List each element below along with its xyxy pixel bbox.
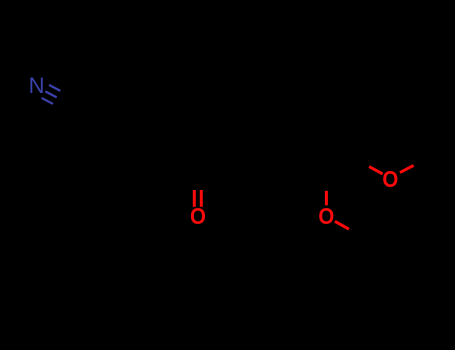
svg-text:O: O — [318, 202, 334, 229]
lower methoxy: ring-side half bond (vertical) — [325, 191, 328, 206]
svg-text:O: O — [190, 203, 206, 230]
upper methoxy: ring-side half bond — [369, 167, 383, 174]
upper methoxy: methyl-side half bond — [400, 165, 414, 172]
svg-text:O: O — [382, 166, 398, 193]
ketone C=O double bond (red half near O) — [194, 190, 201, 207]
svg-text:N: N — [29, 73, 45, 98]
lower methoxy: methyl-side half bond — [335, 221, 349, 229]
nitrile triple bond (blue half near N) — [42, 85, 61, 104]
